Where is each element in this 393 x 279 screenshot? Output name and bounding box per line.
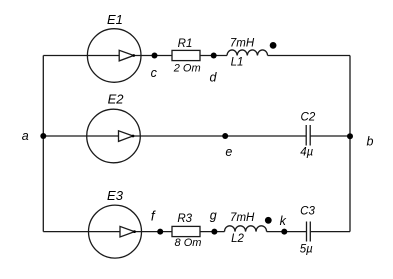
- svg-text:7mH: 7mH: [230, 37, 255, 49]
- svg-text:4µ: 4µ: [300, 146, 313, 158]
- svg-text:c: c: [151, 66, 158, 80]
- svg-text:k: k: [280, 214, 287, 228]
- svg-text:b: b: [367, 135, 374, 149]
- svg-text:E3: E3: [107, 188, 124, 203]
- svg-text:C2: C2: [301, 111, 316, 123]
- svg-text:5µ: 5µ: [300, 243, 313, 255]
- svg-text:L1: L1: [231, 56, 244, 68]
- svg-text:R1: R1: [178, 38, 193, 50]
- svg-text:L2: L2: [231, 233, 244, 245]
- svg-text:g: g: [210, 208, 217, 222]
- svg-text:7mH: 7mH: [230, 212, 255, 224]
- svg-text:e: e: [225, 145, 232, 159]
- svg-text:C3: C3: [300, 205, 315, 217]
- svg-text:8 Om: 8 Om: [175, 237, 202, 249]
- svg-text:a: a: [22, 129, 29, 143]
- svg-text:2 Om: 2 Om: [173, 63, 201, 75]
- svg-text:d: d: [210, 71, 218, 85]
- svg-text:E1: E1: [107, 12, 123, 27]
- svg-text:E2: E2: [108, 91, 125, 106]
- svg-text:R3: R3: [177, 213, 192, 225]
